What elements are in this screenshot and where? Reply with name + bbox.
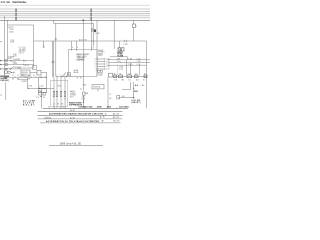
wire drop x97 trunk bbox=[96, 20, 98, 76]
bus wire 5 bbox=[0, 17, 150, 19]
wire drop into blobs bbox=[118, 41, 120, 48]
wire y41 main bbox=[34, 40, 147, 42]
connector column C220 top bbox=[90, 9, 92, 21]
svg-text:A0: A0 bbox=[102, 120, 104, 123]
connector ticks C126 bbox=[124, 40, 126, 43]
left edge tick y95 bbox=[0, 94, 2, 96]
wire x91.8 lower bbox=[91, 31, 93, 46]
svg-text:C 126: C 126 bbox=[123, 44, 128, 46]
banner rule 2 bbox=[38, 114, 123, 116]
connector row drops bbox=[126, 60, 128, 75]
svg-text:BK: BK bbox=[17, 79, 19, 81]
svg-text:C 44: C 44 bbox=[106, 69, 109, 71]
connector ticks left rows bbox=[23, 60, 25, 62]
breaker row2 bbox=[5, 63, 7, 65]
svg-text:M1: M1 bbox=[57, 103, 59, 105]
svg-text:A-4: A-4 bbox=[135, 84, 138, 87]
wire drop x114.2 bbox=[113, 20, 115, 48]
svg-text:B+ 30: B+ 30 bbox=[70, 110, 75, 112]
svg-text:C 104: C 104 bbox=[128, 58, 132, 60]
bus wire 2 bbox=[0, 11, 150, 13]
banner rule 4 bbox=[40, 122, 121, 124]
svg-text:C3 C 32: C3 C 32 bbox=[113, 121, 119, 123]
radio box pin stubs bbox=[71, 41, 73, 51]
radio unit box U1 bbox=[68, 50, 97, 77]
banner wire ticks bbox=[54, 108, 56, 110]
junction row y77.2 bbox=[4, 76, 46, 78]
wire x133.7 lower bbox=[133, 27, 135, 41]
junction dots left rows bbox=[10, 60, 11, 61]
svg-text:S 204: S 204 bbox=[8, 58, 12, 60]
svg-text:B+ 30: B+ 30 bbox=[102, 114, 107, 116]
left edge tick y41 bbox=[0, 41, 2, 43]
svg-text:4: 4 bbox=[72, 47, 73, 49]
wire drop x41.7 bbox=[41, 88, 43, 108]
banner rule 3 bbox=[38, 118, 123, 120]
svg-text:(BK/WT): (BK/WT) bbox=[132, 102, 141, 104]
box B2 bbox=[37, 70, 41, 75]
svg-text:C 104: C 104 bbox=[137, 58, 141, 60]
resistor R4 bbox=[64, 91, 66, 96]
wire drop x108 bbox=[107, 77, 109, 108]
svg-text:(GY): (GY) bbox=[70, 96, 74, 98]
wire drop x83.6 bbox=[83, 20, 85, 90]
wire y79.8 bbox=[18, 79, 28, 81]
svg-text:C 118: C 118 bbox=[119, 68, 123, 70]
resistor R1 bbox=[53, 91, 55, 96]
svg-text:1 RD: 1 RD bbox=[121, 79, 124, 81]
wire box2 right bbox=[41, 72, 47, 74]
wire left row 1 bbox=[0, 60, 34, 62]
connector blob top right bbox=[133, 24, 136, 27]
relay box on wire bbox=[39, 89, 47, 93]
connector C220 bbox=[91, 28, 92, 29]
wire drop right x146.5 bbox=[146, 41, 148, 108]
svg-text:RD: RD bbox=[12, 79, 14, 81]
svg-text:SUPPR: SUPPR bbox=[70, 93, 76, 95]
wire y56.8 right bbox=[110, 57, 127, 60]
wire left row 3 bbox=[0, 68, 21, 70]
wire y65.2 right bbox=[108, 64, 147, 66]
wire y88.3 bbox=[28, 87, 55, 89]
capacitor C3 blob bbox=[118, 48, 121, 51]
small box right low bbox=[109, 73, 113, 77]
svg-text:18 BK: 18 BK bbox=[13, 63, 17, 65]
component circle-x bbox=[67, 73, 70, 76]
svg-text:B1 C 31: B1 C 31 bbox=[113, 117, 119, 119]
svg-text:C 344: C 344 bbox=[82, 84, 86, 86]
wire y68 bbox=[18, 67, 34, 69]
svg-text:G201 (BK): G201 (BK) bbox=[119, 106, 129, 108]
svg-text:25 BK/RD: 25 BK/RD bbox=[44, 117, 52, 119]
wire drop left B bbox=[6, 20, 8, 60]
svg-text:S204: S204 bbox=[9, 31, 13, 33]
bottom cluster left bbox=[5, 71, 8, 73]
svg-text:B2: B2 bbox=[120, 73, 122, 75]
resistor R2 bbox=[56, 91, 58, 96]
wire y23.4 bbox=[54, 20, 94, 23]
svg-text:S201: S201 bbox=[107, 106, 111, 108]
svg-text:RELAY: RELAY bbox=[23, 103, 35, 106]
svg-text:S202: S202 bbox=[89, 106, 93, 108]
junction dots lower left of box bbox=[83, 100, 84, 101]
connector row boxes bbox=[114, 75, 117, 78]
connector break on pair bbox=[51, 61, 54, 63]
svg-text:G200 (BK): G200 (BK) bbox=[79, 106, 88, 108]
ticks junction row bbox=[14, 76, 16, 78]
radio branch row 1 bbox=[97, 58, 106, 60]
radio branch row 5 bbox=[97, 68, 106, 70]
svg-text:14: 14 bbox=[110, 94, 112, 96]
svg-text:Grand Cherokee: Grand Cherokee bbox=[12, 0, 27, 4]
switch diagonal mid bbox=[63, 72, 67, 76]
svg-text:3: 3 bbox=[77, 47, 78, 49]
wire drop x91.8 bbox=[91, 20, 93, 28]
svg-text:30: 30 bbox=[80, 89, 82, 91]
resistor drops bbox=[53, 76, 55, 91]
svg-text:14: 14 bbox=[12, 75, 14, 77]
bus wire 3 bbox=[0, 13, 150, 15]
svg-text:ALTERNATOR 30 TELLTALE/VOLTMET: ALTERNATOR 30 TELLTALE/VOLTMETER bbox=[46, 120, 99, 123]
svg-text:CHOKE: CHOKE bbox=[70, 95, 76, 97]
resistor tails bbox=[53, 97, 55, 109]
connector C140 bbox=[43, 45, 44, 46]
trunk bottom boxes bbox=[98, 70, 100, 72]
svg-text:C 12: C 12 bbox=[128, 79, 131, 81]
switch row mid bbox=[56, 75, 84, 77]
wire drop x46.7 bbox=[46, 73, 48, 89]
svg-text:E5: E5 bbox=[144, 73, 146, 75]
svg-text:C 41: C 41 bbox=[106, 61, 109, 63]
small box right mid bbox=[117, 96, 120, 99]
box segment bottom mid bbox=[92, 85, 104, 89]
wire y25 bbox=[7, 25, 33, 41]
bus wire 4 bbox=[0, 15, 150, 17]
junction dot bus bbox=[82, 19, 84, 21]
svg-text:C 14: C 14 bbox=[36, 97, 39, 99]
svg-text:8 PK: 8 PK bbox=[117, 58, 120, 60]
wire drop x52.3 bbox=[51, 41, 53, 77]
svg-text:20 RD/BK: 20 RD/BK bbox=[13, 59, 20, 61]
svg-text:12 BK: 12 BK bbox=[81, 99, 85, 101]
svg-text:C 105: C 105 bbox=[137, 61, 141, 63]
banner wire y108.3 bbox=[43, 107, 128, 109]
wire drop x27.5 bbox=[27, 77, 29, 88]
svg-text:C 300: C 300 bbox=[141, 85, 145, 87]
svg-text:C 307: C 307 bbox=[98, 75, 102, 77]
junction dots y88.3 bbox=[28, 88, 29, 89]
wire drop x43.6 bbox=[43, 41, 45, 45]
wire x93.6 bbox=[93, 23, 95, 46]
svg-text:C 201: C 201 bbox=[10, 40, 14, 42]
svg-text:B+ 30: B+ 30 bbox=[100, 117, 105, 119]
fuse F5 bbox=[83, 92, 85, 95]
cluster small parts bbox=[39, 92, 42, 95]
svg-text:86: 86 bbox=[80, 78, 82, 80]
connector row wire bbox=[114, 75, 147, 77]
svg-text:(EXPORT): (EXPORT) bbox=[77, 59, 85, 61]
wire drop x53.6 bbox=[53, 41, 55, 76]
wire box1-box2 bbox=[30, 72, 37, 74]
connector column C100 bbox=[15, 9, 16, 21]
svg-text:57 BK: 57 BK bbox=[119, 67, 123, 69]
svg-text:A2 C 30: A2 C 30 bbox=[113, 113, 119, 116]
switch diagonal left bbox=[11, 66, 14, 68]
svg-text:G 30: G 30 bbox=[114, 79, 117, 81]
svg-text:M2: M2 bbox=[61, 103, 63, 105]
wire drop x133.7 bbox=[133, 20, 135, 24]
svg-text:20 BK/T: 20 BK/T bbox=[22, 81, 28, 83]
svg-text:14: 14 bbox=[33, 75, 35, 77]
wire drop x130.5 mid bbox=[130, 82, 132, 90]
svg-text:STEREO: STEREO bbox=[98, 52, 105, 54]
bus wire 1 bbox=[0, 8, 150, 10]
radio branch row 2 bbox=[97, 61, 106, 63]
wire left row 2 bbox=[0, 64, 34, 66]
svg-text:30: 30 bbox=[45, 77, 47, 79]
wire y59.8 right bbox=[108, 59, 151, 61]
svg-text:C 342: C 342 bbox=[39, 86, 43, 88]
dashed wire x117.8 bbox=[117, 65, 119, 75]
svg-text:C 43: C 43 bbox=[106, 66, 109, 68]
svg-text:C3: C3 bbox=[128, 73, 130, 75]
svg-text:S2: S2 bbox=[62, 106, 64, 108]
svg-text:85: 85 bbox=[77, 78, 79, 80]
title rule bbox=[0, 4, 150, 6]
svg-text:D4: D4 bbox=[135, 73, 137, 75]
svg-text:C 106: C 106 bbox=[137, 64, 141, 66]
wire y97 right bbox=[119, 97, 134, 99]
small rect mid bbox=[33, 66, 37, 70]
banner rule 1 bbox=[38, 111, 123, 113]
svg-text:B 2: B 2 bbox=[143, 79, 145, 81]
footer rule bbox=[49, 144, 103, 146]
radio branch row 4 bbox=[97, 66, 106, 68]
resistor block box bbox=[50, 81, 67, 107]
svg-text:S1: S1 bbox=[48, 106, 50, 108]
wire drop x55.8 bbox=[55, 23, 57, 76]
wire drop x133.7 mid bbox=[133, 82, 135, 99]
wire drop x33.7 lower bbox=[33, 41, 35, 68]
svg-text:S203: S203 bbox=[97, 106, 101, 108]
box B1 bbox=[21, 70, 30, 76]
svg-text:12: 12 bbox=[17, 75, 19, 77]
svg-text:C200 (GY): C200 (GY) bbox=[0, 80, 9, 82]
left edge arrows bbox=[0, 60, 2, 62]
svg-text:B+ 30: B+ 30 bbox=[70, 118, 75, 120]
svg-text:C 341: C 341 bbox=[28, 86, 32, 88]
svg-text:(RD): (RD) bbox=[19, 53, 25, 55]
fuse tail bbox=[83, 95, 85, 108]
contact row3 bbox=[5, 67, 8, 69]
connector break on x55.8 bbox=[55, 38, 57, 40]
svg-text:1: 1 bbox=[136, 26, 137, 28]
breaker row1 bbox=[5, 60, 7, 62]
svg-text:18: 18 bbox=[28, 75, 30, 77]
wire y62.6 right bbox=[108, 62, 151, 64]
svg-text:WT: WT bbox=[28, 79, 30, 81]
svg-text:IGN SW: IGN SW bbox=[22, 72, 28, 74]
wire drop x5.8 bbox=[5, 83, 7, 101]
resistor R3 bbox=[60, 91, 62, 96]
svg-text:4.0L SE: 4.0L SE bbox=[1, 0, 11, 4]
svg-text:FILTER: FILTER bbox=[117, 55, 124, 57]
radio branch row 3 bbox=[97, 63, 106, 65]
wire drop left A bbox=[3, 16, 5, 77]
svg-text:BK: BK bbox=[110, 98, 112, 100]
wire drop x38.3 bbox=[37, 77, 39, 88]
bus wire 6 bbox=[0, 19, 150, 21]
svg-text:ALTERNATOR/CHARGE INDICATOR CI: ALTERNATOR/CHARGE INDICATOR CIRCUIT bbox=[49, 113, 103, 116]
svg-text:16: 16 bbox=[22, 75, 24, 77]
capacitor C4 blob bbox=[121, 48, 124, 51]
